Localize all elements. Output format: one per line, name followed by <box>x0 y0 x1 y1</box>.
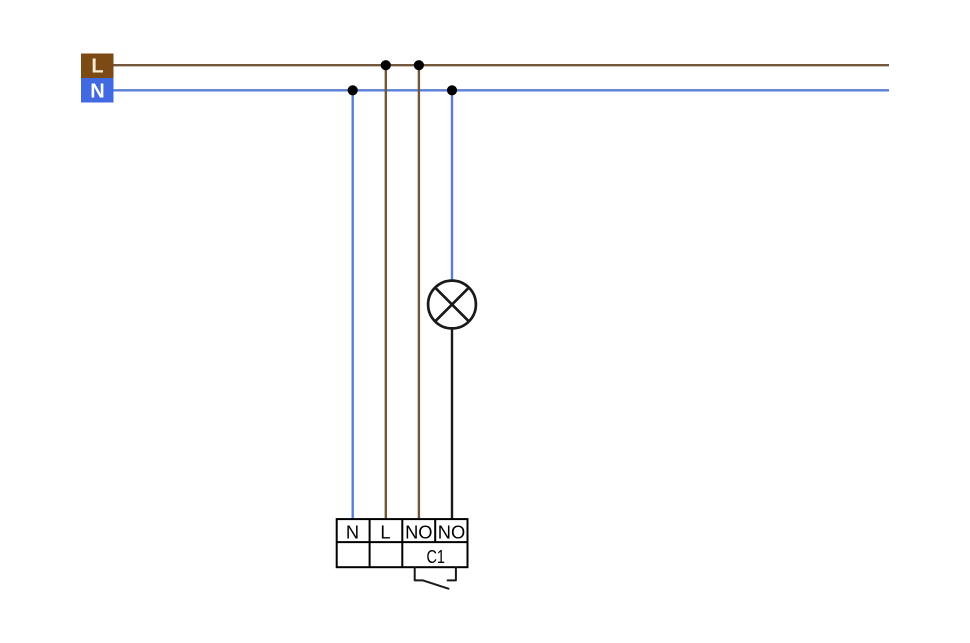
svg-text:N: N <box>90 81 104 103</box>
svg-text:NO: NO <box>438 521 465 542</box>
svg-text:N: N <box>346 521 359 542</box>
svg-text:L: L <box>380 521 390 542</box>
svg-text:C1: C1 <box>426 546 445 567</box>
svg-text:NO: NO <box>405 521 432 542</box>
svg-text:L: L <box>91 56 103 78</box>
